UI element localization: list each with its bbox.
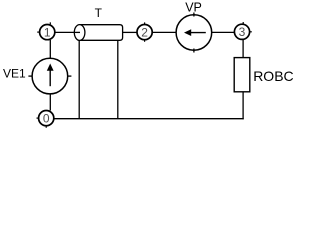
node 1 left tick <box>37 31 39 33</box>
svg-text:0: 0 <box>43 112 50 126</box>
VP arrow shaft <box>188 32 206 34</box>
node 0 bottom tick <box>45 126 47 128</box>
svg-text:VE1: VE1 <box>3 67 26 81</box>
voltage source VE1 circle <box>32 58 68 94</box>
node 3 right tick <box>250 31 252 33</box>
VP top pin tick <box>193 13 195 17</box>
resistor ROBC body <box>234 58 250 92</box>
node 2 bubble <box>137 24 152 39</box>
node 1 top tick <box>49 22 51 24</box>
VP arrow head <box>184 29 191 36</box>
wire node1 to VE1 <box>49 40 51 59</box>
wire T left ground stub <box>78 41 80 119</box>
wire VP to node3 <box>212 31 235 33</box>
svg-text:3: 3 <box>239 25 246 39</box>
node 2 bottom tick <box>144 40 146 42</box>
svg-text:VP: VP <box>185 1 202 15</box>
node 3 bubble <box>234 24 249 39</box>
VE1 arrow shaft <box>49 68 51 86</box>
wire T right ground stub <box>117 41 119 119</box>
svg-text:T: T <box>95 6 103 20</box>
node 2 top tick <box>144 22 146 24</box>
VP bottom pin tick <box>193 49 195 53</box>
svg-text:ROBC: ROBC <box>253 68 293 84</box>
wire node3 to ROBC <box>242 40 244 59</box>
node 0 bubble <box>39 111 54 126</box>
VE1 arrow head <box>47 64 54 71</box>
svg-text:2: 2 <box>141 25 148 39</box>
transmission line T body <box>80 25 123 41</box>
wire ROBC to bottom rail <box>242 92 244 120</box>
wire bottom rail node0 to resistor branch <box>54 118 244 120</box>
node 1 bubble <box>40 24 55 39</box>
svg-text:1: 1 <box>44 25 51 39</box>
node 0 left tick <box>37 117 39 119</box>
wire entering T ellipse <box>74 31 80 33</box>
wire T right to node2 <box>123 31 138 33</box>
node 3 top tick <box>242 22 244 24</box>
wire VE1 to node0 <box>49 94 51 111</box>
wire node2 to VP <box>153 31 177 33</box>
VE1 left pin tick <box>28 75 32 77</box>
VE1 right pin tick <box>67 75 71 77</box>
wire node1 to T left <box>55 31 80 33</box>
current probe VP circle <box>176 15 212 51</box>
transmission line T left ellipse <box>74 25 85 41</box>
